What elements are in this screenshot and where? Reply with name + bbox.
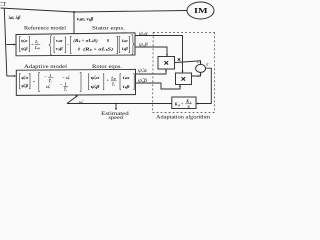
svg-text:Tᵣ: Tᵣ [49, 79, 52, 83]
wire psi_hat_r_alpha output to multiplier 1 [136, 69, 167, 74]
svg-text:ψ̂ᵣβ: ψ̂ᵣβ [138, 79, 148, 84]
wire i_s vertical drop from CT [4, 9, 7, 77]
IM motor ellipse [187, 2, 214, 19]
wire estimated speed output arrow [115, 104, 117, 110]
wire power line to motor [1, 8, 188, 12]
adaptive model box [16, 69, 135, 95]
svg-text:ψ̂̇ᵣβ: ψ̂̇ᵣβ [21, 83, 29, 88]
svg-text:iₛβ: iₛβ [122, 46, 129, 51]
svg-text:1: 1 [49, 74, 51, 78]
wire multiplier2 output to summing junction bottom [192, 73, 201, 76]
arrow into PI controller [196, 103, 198, 105]
svg-text:−: − [197, 74, 200, 79]
svg-text:Lₘ: Lₘ [110, 76, 116, 80]
svg-text:Lᵣ: Lᵣ [34, 40, 38, 44]
svg-text:+: + [197, 60, 200, 65]
curly brace open [49, 36, 52, 55]
multiplier box X2 [176, 73, 192, 85]
svg-text:Stator eqns.: Stator eqns. [92, 25, 125, 31]
svg-text:Rotor eqns.: Rotor eqns. [92, 64, 122, 70]
svg-text:ω̂ᵣ: ω̂ᵣ [46, 84, 50, 89]
wire epsilon from summing junction to PI controller [197, 68, 212, 103]
svg-text:vₛβ: vₛβ [56, 46, 64, 51]
wire psi_hat_r_beta output to multiplier 2 [136, 83, 181, 89]
svg-text:P: P [178, 103, 180, 107]
svg-text:Tᵣ: Tᵣ [112, 82, 115, 86]
wire i_s branch into reference model [6, 44, 14, 46]
svg-text:iₛα, iₛβ: iₛα, iₛβ [9, 15, 21, 21]
PI controller content K_P + K_I/S [174, 99, 192, 110]
PI controller box [172, 97, 196, 109]
arrow estimated speed down [115, 108, 117, 110]
arrow into adaptive model [14, 75, 16, 77]
curly brace close [131, 35, 134, 55]
wire v_s tap down into reference model [73, 12, 75, 34]
svg-text:ψᵣα: ψᵣα [139, 32, 148, 37]
brackets of adaptive equation [20, 73, 135, 92]
label X1 multiply sign [165, 61, 169, 65]
fraction bars adaptive equation [48, 78, 116, 87]
svg-text:1: 1 [65, 82, 67, 86]
svg-text:ψᵣβ: ψᵣβ [139, 43, 148, 48]
wire psi_r_alpha output to multiplier 2 [135, 36, 183, 73]
svg-text:(Rₛ + σLₛS): (Rₛ + σLₛS) [83, 46, 114, 51]
fraction bar Lr/Lm [35, 43, 40, 45]
svg-text:speed: speed [109, 116, 124, 120]
brackets of reference equation [20, 35, 135, 55]
svg-text:Lₘ: Lₘ [34, 46, 40, 50]
wire i_s branch into adaptive model [7, 75, 15, 77]
svg-text:ψ̂ᵣβ: ψ̂ᵣβ [91, 84, 101, 89]
arrow into summing junction bottom [200, 72, 202, 74]
svg-text:(Rₛ + σLₛS): (Rₛ + σLₛS) [73, 38, 98, 43]
svg-text:ω̂ᵣ: ω̂ᵣ [66, 75, 70, 80]
wire multiplier1 output to summing junction top [175, 61, 201, 64]
svg-text:CT: CT [0, 2, 7, 8]
arrow into multiplier1 top [166, 54, 168, 56]
svg-text:Reference model: Reference model [24, 24, 67, 31]
arrowheads [14, 44, 202, 111]
svg-text:Adaptation algorithm: Adaptation algorithm [156, 114, 211, 120]
label X2 multiply sign [182, 77, 186, 81]
svg-text:ψ̂̇ᵣα: ψ̂̇ᵣα [21, 75, 29, 80]
fraction bar K_I/S [185, 103, 191, 105]
arrow omega into adaptive model bottom [75, 95, 78, 97]
svg-text:Tᵣ: Tᵣ [64, 87, 67, 91]
svg-text:iₛβ: iₛβ [123, 84, 131, 89]
svg-text:ψ̂ᵣα: ψ̂ᵣα [91, 75, 101, 80]
svg-text:ψ̇ᵣβ: ψ̇ᵣβ [21, 46, 28, 51]
reference model box [16, 33, 135, 56]
node v_s tap junction [73, 11, 75, 13]
node junction estimated speed [115, 103, 116, 104]
wire psi_r_beta output to multiplier 1 [135, 47, 167, 57]
adaptation algorithm dashed box [153, 32, 215, 112]
arrow into multiplier1 bottom [165, 69, 167, 71]
svg-text:vₛα: vₛα [56, 38, 63, 43]
svg-text:vₛα, vₛβ: vₛα, vₛβ [77, 17, 94, 22]
arrow into multiplier2 bottom [179, 85, 181, 87]
svg-text:iₛα: iₛα [123, 75, 130, 80]
multiplier box X1 [158, 57, 175, 70]
svg-text:Adaptive model: Adaptive model [24, 64, 68, 70]
wire omega_hat_r feedback line [67, 103, 172, 105]
arrow into summing junction top [200, 62, 202, 64]
svg-text:iₛα: iₛα [122, 38, 129, 43]
wire omega_hat_r diagonal into adaptive model [67, 96, 78, 104]
arrow into multiplier2 top [182, 71, 184, 73]
svg-text:IM: IM [194, 6, 208, 15]
node crossing marker x [178, 58, 181, 61]
arrow into reference model [14, 44, 16, 46]
summing junction circle [196, 64, 206, 72]
svg-text:ψ̂ᵣα: ψ̂ᵣα [138, 69, 147, 74]
svg-text:ψ̇ᵣα: ψ̇ᵣα [21, 38, 28, 43]
